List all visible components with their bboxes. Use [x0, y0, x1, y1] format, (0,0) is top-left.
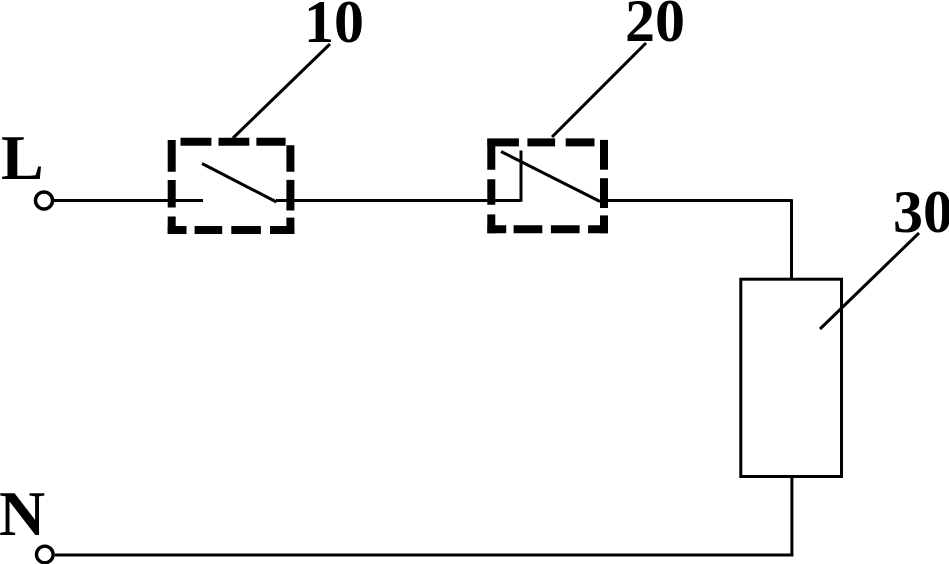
wire load to bottom corner	[790, 477, 793, 556]
switch 20 dashed enclosure	[487, 139, 608, 234]
switch 20 blade	[501, 152, 600, 202]
wire switch 20 to corner	[600, 199, 792, 202]
terminal N	[37, 546, 54, 563]
leader line 30	[820, 233, 919, 329]
wire corner down to load	[790, 199, 793, 279]
svg-text:10: 10	[304, 0, 364, 55]
wire switch 10 to switch 20	[276, 199, 521, 202]
switch 20 riser	[520, 151, 523, 202]
switch 10 dashed enclosure	[168, 140, 295, 234]
load 30	[741, 279, 842, 476]
wire L to switch 10	[54, 199, 203, 202]
terminal L	[36, 192, 53, 209]
switch 10 blade	[202, 164, 277, 203]
bottom wire to N	[55, 554, 794, 557]
svg-text:20: 20	[625, 0, 685, 54]
svg-text:30: 30	[893, 179, 949, 245]
leader line 20	[552, 43, 646, 137]
svg-text:L: L	[1, 122, 44, 193]
leader line 10	[233, 44, 330, 138]
svg-text:N: N	[0, 478, 45, 549]
